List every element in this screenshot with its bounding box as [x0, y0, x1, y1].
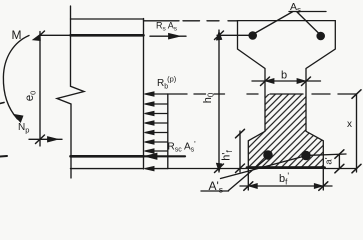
tension steel centroid line [217, 34, 252, 36]
svg-text:A's: A's [209, 179, 224, 195]
wire: column bottom edge [71, 168, 144, 170]
compression steel centroid extension [310, 154, 346, 155]
A's leader lines [221, 157, 304, 191]
tick x top [352, 90, 361, 99]
wire: column top edge [71, 18, 144, 20]
svg-text:Rsc As': Rsc As' [168, 140, 197, 154]
svg-text:b: b [281, 70, 287, 82]
I-section outline [238, 21, 336, 167]
stress arrow 7 [145, 149, 168, 153]
Rs As force arrow [150, 35, 186, 37]
x dimension line [356, 94, 358, 172]
svg-text:x: x [347, 119, 352, 130]
rebar As right [316, 32, 325, 41]
stress arrow 1 [145, 92, 168, 96]
moment arc M [3, 36, 29, 120]
svg-text:Rb(p): Rb(p) [157, 75, 177, 91]
dashed top transfer line [144, 20, 238, 22]
bottom extension right [323, 168, 356, 170]
svg-text:a': a' [324, 157, 335, 164]
wire: tension steel force line (thick) [71, 34, 144, 37]
svg-text:h'f: h'f [221, 150, 235, 161]
tick b right [302, 77, 311, 86]
svg-text:As: As [290, 1, 301, 15]
stress arrow 2 [145, 102, 168, 106]
stress block tail line [167, 94, 169, 169]
stress arrow bottom [145, 167, 168, 171]
tick b left [261, 77, 270, 86]
tick e0 top [36, 31, 45, 40]
tick h'f bottom [236, 164, 245, 173]
Rsc A's force arrow (thick) [145, 155, 186, 157]
b'f dimension line [240, 185, 332, 187]
h'f dimension line [239, 131, 241, 172]
e0 dimension line [39, 32, 41, 147]
stress arrow 5 [145, 131, 168, 135]
Np force arrow [29, 138, 62, 140]
b dimension line [252, 80, 321, 82]
rebar A's right [301, 151, 311, 161]
bottom extension line [168, 168, 249, 170]
stress arrow 4 [145, 121, 168, 125]
scan artifact marks [0, 155, 7, 158]
neutral axis dash line [168, 93, 357, 95]
wire: column left edge with break [57, 6, 84, 178]
tick e0 bottom [36, 135, 45, 144]
tick b'f left [244, 182, 253, 191]
tick h0 top [215, 31, 224, 40]
h0 dimension line [218, 30, 220, 172]
svg-text:Np: Np [18, 122, 29, 135]
hatched compression zone [248, 94, 323, 167]
svg-text:M: M [12, 28, 22, 42]
tick a' bottom [335, 164, 344, 173]
tick b'f right [319, 182, 328, 191]
tick x bottom [352, 164, 361, 173]
b'f extension lines [248, 168, 323, 190]
As leader lines [254, 12, 327, 35]
tick a' top [335, 150, 344, 159]
svg-text:e0: e0 [24, 91, 38, 102]
tick h0 bottom [215, 164, 224, 173]
wire: column right edge [143, 19, 145, 169]
A's underline [201, 190, 229, 192]
section bottom edge (thick) [247, 166, 325, 169]
rebar A's left [263, 150, 273, 160]
svg-text:Rs As: Rs As [156, 21, 178, 33]
svg-text:bf': bf' [279, 171, 289, 187]
stress arrow 3 [145, 112, 168, 116]
rebar As left [248, 31, 257, 40]
a' dimension line [338, 154, 340, 169]
wire: compression steel line (thick) [71, 155, 144, 158]
wire: e0 top extension [40, 34, 71, 36]
stress arrow 6 [145, 140, 168, 144]
tick h'f top [236, 129, 245, 138]
